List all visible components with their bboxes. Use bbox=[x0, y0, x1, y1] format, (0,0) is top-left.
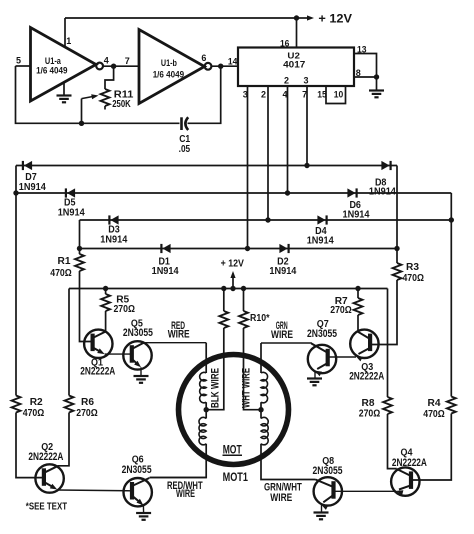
svg-text:.05: .05 bbox=[179, 143, 191, 155]
svg-text:270Ω: 270Ω bbox=[76, 407, 98, 419]
svg-text:1: 1 bbox=[66, 36, 71, 46]
svg-text:WIRE: WIRE bbox=[271, 329, 293, 341]
svg-text:D7: D7 bbox=[25, 171, 37, 183]
svg-text:470Ω: 470Ω bbox=[23, 407, 45, 419]
svg-text:8: 8 bbox=[356, 68, 361, 78]
svg-text:+ 12V: + 12V bbox=[221, 259, 244, 270]
svg-text:270Ω: 270Ω bbox=[359, 408, 381, 420]
svg-text:1N914: 1N914 bbox=[100, 234, 127, 245]
svg-text:2N3055: 2N3055 bbox=[123, 327, 153, 339]
svg-text:270Ω: 270Ω bbox=[113, 303, 135, 315]
svg-text:1N914: 1N914 bbox=[58, 208, 85, 219]
svg-text:WHT WIRE: WHT WIRE bbox=[241, 368, 253, 408]
svg-text:WIRE: WIRE bbox=[176, 488, 195, 500]
svg-text:2N2222A: 2N2222A bbox=[28, 451, 63, 463]
svg-text:2N3055: 2N3055 bbox=[122, 464, 152, 476]
svg-text:MOT: MOT bbox=[223, 442, 242, 456]
svg-text:1N914: 1N914 bbox=[269, 266, 296, 277]
svg-text:470Ω: 470Ω bbox=[423, 408, 445, 420]
svg-text:16: 16 bbox=[280, 39, 290, 49]
svg-text:10: 10 bbox=[334, 90, 344, 100]
svg-text:1/6 4049: 1/6 4049 bbox=[36, 66, 67, 76]
svg-text:2: 2 bbox=[284, 76, 289, 86]
svg-text:+ 12V: + 12V bbox=[318, 14, 352, 26]
svg-text:2N3055: 2N3055 bbox=[313, 465, 343, 477]
svg-text:2: 2 bbox=[261, 90, 266, 100]
svg-text:3: 3 bbox=[303, 76, 308, 86]
svg-text:14: 14 bbox=[228, 57, 238, 67]
svg-text:2N2222A: 2N2222A bbox=[349, 370, 384, 382]
svg-text:2N3055: 2N3055 bbox=[307, 328, 337, 340]
svg-text:470Ω: 470Ω bbox=[50, 267, 72, 279]
svg-text:1/6 4049: 1/6 4049 bbox=[153, 70, 184, 80]
svg-text:2N2222A: 2N2222A bbox=[392, 457, 427, 469]
svg-text:13: 13 bbox=[357, 45, 367, 55]
svg-text:U1-b: U1-b bbox=[161, 58, 177, 68]
svg-text:BLK WIRE: BLK WIRE bbox=[209, 368, 221, 408]
svg-text:R1: R1 bbox=[58, 255, 71, 267]
svg-text:250K: 250K bbox=[112, 98, 131, 110]
svg-text:470Ω: 470Ω bbox=[402, 272, 424, 284]
svg-text:MOT1: MOT1 bbox=[223, 470, 249, 484]
svg-text:1N914: 1N914 bbox=[19, 182, 46, 193]
svg-text:1N914: 1N914 bbox=[343, 210, 370, 221]
svg-text:6: 6 bbox=[201, 53, 206, 63]
svg-text:2N2222A: 2N2222A bbox=[80, 365, 115, 377]
svg-text:1N914: 1N914 bbox=[152, 266, 179, 277]
svg-text:270Ω: 270Ω bbox=[330, 304, 352, 316]
svg-text:*SEE TEXT: *SEE TEXT bbox=[26, 502, 67, 513]
svg-text:R10*: R10* bbox=[250, 312, 270, 324]
svg-text:WIRE: WIRE bbox=[270, 492, 292, 504]
svg-text:5: 5 bbox=[16, 56, 21, 66]
svg-text:1N914: 1N914 bbox=[307, 236, 334, 247]
svg-text:1N914: 1N914 bbox=[369, 186, 396, 197]
svg-text:U1-a: U1-a bbox=[45, 56, 62, 66]
svg-text:4: 4 bbox=[104, 56, 109, 66]
svg-text:WIRE: WIRE bbox=[168, 328, 190, 340]
svg-text:7: 7 bbox=[125, 56, 130, 66]
svg-text:4017: 4017 bbox=[283, 60, 305, 71]
